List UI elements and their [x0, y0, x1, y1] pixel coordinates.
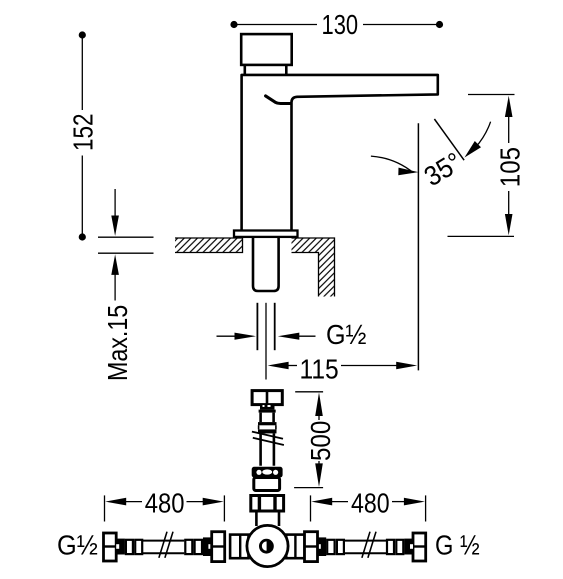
dim 130 line left segment: [234, 24, 317, 26]
hose top nut divider: [266, 391, 269, 405]
faucet neck right edge: [285, 65, 288, 75]
faucet knob: [241, 34, 292, 65]
left hose connector notch: [116, 544, 119, 549]
right supply hose group (mirror): [305, 532, 426, 562]
svg-text:480: 480: [145, 488, 185, 519]
tee right arm divider: [294, 535, 296, 559]
G half top left arrow line: [217, 335, 237, 337]
hose break slash 2: [253, 438, 284, 445]
left hose collar b: [135, 540, 142, 554]
dim 115 left arrowhead: [268, 362, 289, 370]
dim 480 left: right tick: [223, 495, 225, 521]
hose upper black piece notches: [263, 405, 265, 407]
svg-text:152: 152: [67, 113, 98, 151]
hose break slash 1: [252, 432, 283, 439]
faucet handle lever: [266, 96, 291, 104]
tee riser tube: [256, 511, 279, 526]
35 degree left arc arrowhead: [398, 168, 418, 176]
faucet neck left edge: [244, 65, 247, 75]
svg-text:105: 105: [495, 147, 526, 187]
left hose inner nut: [212, 532, 225, 562]
faucet centerline extension: [265, 303, 267, 380]
dim 115 right arrowhead: [396, 362, 417, 370]
right hose break slash 1: [362, 532, 370, 558]
right hose break slash 2: [368, 532, 376, 558]
flare nut facet left: [256, 470, 261, 475]
supply pipe tail left: [256, 303, 258, 350]
G half top left arrowhead: [235, 333, 257, 340]
faucet base flange: [234, 231, 298, 237]
Max.15 down arrowhead: [111, 216, 119, 237]
left hose end nut divider: [104, 545, 117, 547]
left hose tube top line: [143, 540, 184, 542]
dim 480 right: line left segment: [330, 501, 348, 503]
svg-text:G½: G½: [57, 530, 98, 561]
tee hex nut left facet band: [258, 496, 261, 512]
left supply hose group: [104, 532, 225, 562]
left hose break slash 2: [165, 532, 173, 558]
G half top right arrow line: [297, 335, 316, 337]
tee hex nut right facet band: [273, 496, 276, 512]
35 degree right arc arrowhead: [465, 141, 482, 158]
dim 480 left: right arrowhead: [203, 498, 224, 506]
hose upper collar: [259, 410, 276, 413]
dim 500 top arrowhead: [315, 392, 323, 416]
left hose tube bottom line: [143, 552, 184, 554]
dim 480 right: left tick: [310, 495, 312, 521]
left hose black connector: [116, 539, 125, 555]
svg-text:G ½: G ½: [435, 530, 480, 561]
dim 480 right: line right segment: [392, 501, 408, 503]
left hose break slash 1: [159, 532, 167, 558]
tee center dot: [259, 539, 274, 554]
hose mid collar upper band: [258, 422, 277, 425]
faucet shank below counter: [253, 238, 279, 292]
hose bottom flare nut: [252, 467, 283, 478]
supply pipe tail right: [274, 303, 276, 350]
35 degree right arc: [475, 122, 490, 148]
dim 500 bottom arrowhead: [315, 463, 323, 487]
svg-text:500: 500: [305, 421, 336, 461]
left hose collar d: [195, 540, 202, 554]
hose lower tube: [261, 433, 274, 465]
dim 500 bottom tick: [294, 487, 323, 489]
hose upper black piece: [260, 405, 275, 410]
dim 480 left: left arrowhead: [105, 498, 126, 506]
faucet body outline: [242, 75, 438, 231]
left hose collar c: [185, 540, 192, 554]
dim 480 right: right tick: [425, 495, 427, 521]
tee left arm divider: [239, 535, 241, 559]
left hose connector 2 notch: [208, 544, 211, 549]
Max.15 upper tick line: [98, 236, 154, 238]
flexible hose vertical: top nut: [252, 391, 282, 405]
hose bottom end fitting: [254, 478, 280, 491]
dim 152 top dot: [79, 31, 86, 38]
dim 480 right: right arrowhead: [404, 498, 425, 506]
svg-text:G½: G½: [326, 319, 367, 350]
left hose black connector 2: [203, 537, 211, 556]
flare nut facet right: [273, 470, 278, 475]
dim 130 right dot: [436, 21, 443, 28]
svg-text:Max.15: Max.15: [102, 305, 133, 381]
left hose inner nut divider: [212, 545, 225, 547]
Max.15 down arrow line: [114, 189, 116, 218]
flare nut facet middle: [262, 469, 272, 474]
dim 115 line right segment: [341, 365, 400, 367]
dim 105 line upper segment: [508, 113, 510, 143]
dim 130 left dot: [230, 21, 237, 28]
dim 152 line top segment: [81, 35, 83, 110]
dim 105 line lower segment: [508, 191, 510, 219]
hose mid collar lower band: [258, 429, 277, 433]
svg-text:115: 115: [300, 354, 339, 385]
dim 480 left: line right segment: [187, 501, 204, 503]
tee body circle: [247, 525, 288, 566]
dim 105 top reference line: [468, 94, 515, 96]
svg-text:480: 480: [351, 488, 390, 519]
dim 480 left: line left segment: [124, 501, 142, 503]
tee center dot white crescent: [262, 541, 267, 550]
G half top right arrowhead: [278, 333, 300, 340]
dim 152 bottom dot: [79, 233, 86, 240]
dim 500 top tick: [295, 391, 323, 393]
dim 115 line left segment: [286, 365, 297, 367]
35 degree vertical reference line: [417, 123, 419, 370]
dim 500 line upper stub: [318, 413, 320, 420]
left hose collar a: [126, 540, 133, 554]
dim 480 right: left arrowhead: [311, 498, 332, 506]
dim 105 bottom reference line: [448, 235, 515, 237]
tee right arm: [286, 535, 304, 559]
dim 105 bottom arrowhead: [505, 214, 513, 235]
Max.15 up arrow line: [114, 272, 116, 301]
left hose end nut: [104, 533, 117, 561]
hose mid collar sides: [259, 425, 276, 429]
dim 152 line bottom segment: [81, 156, 83, 238]
svg-text:130: 130: [322, 9, 359, 40]
dim 105 top arrowhead: [505, 96, 513, 117]
dim 500 line lower stub: [318, 461, 320, 466]
countertop right L-shaped section hatched: [292, 238, 335, 297]
35 degree left arc: [371, 156, 414, 173]
tee left arm: [230, 535, 248, 559]
Max.15 lower tick line: [98, 252, 154, 254]
countertop left section hatched: [175, 238, 243, 253]
35 degree slanted line: [434, 119, 464, 160]
dim 130 line right segment: [363, 24, 440, 26]
tee hex nut: [251, 496, 284, 512]
hose upper tube: [261, 413, 274, 423]
Max.15 up arrowhead: [111, 254, 119, 275]
dim 480 left: left tick: [104, 495, 106, 521]
